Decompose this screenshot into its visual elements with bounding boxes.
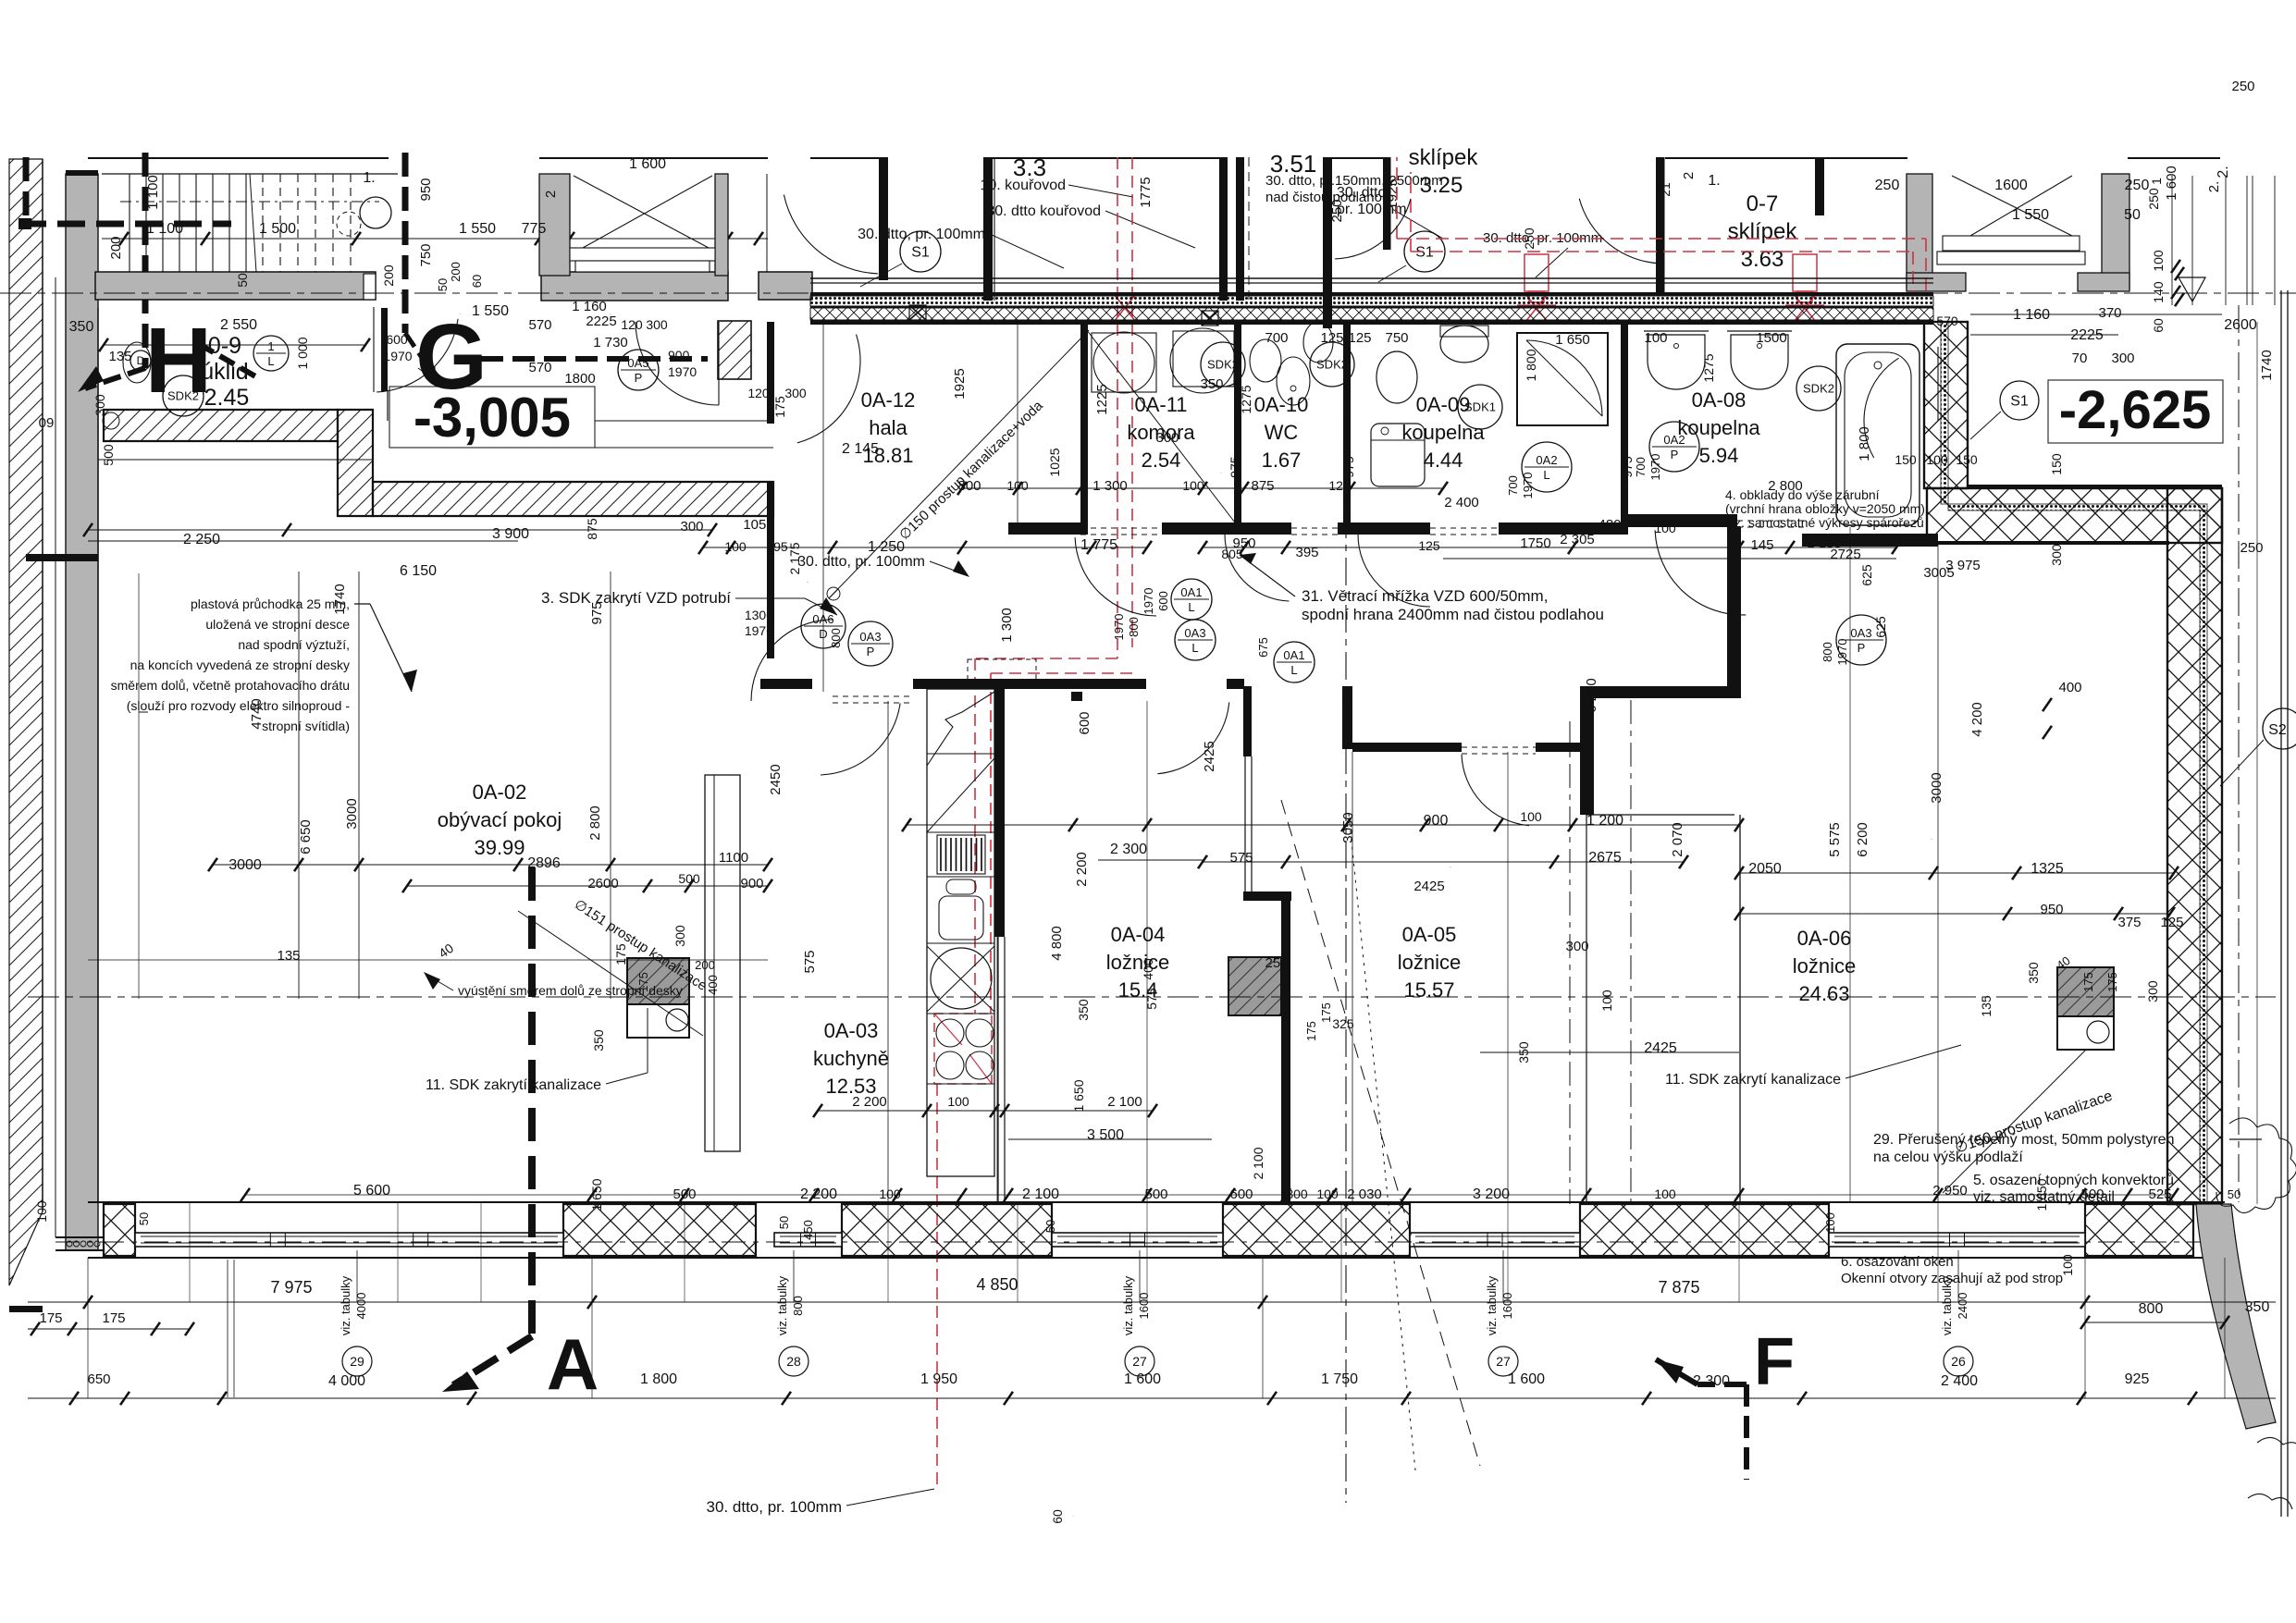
svg-text:1775: 1775: [1138, 177, 1154, 207]
svg-text:525: 525: [2148, 1187, 2171, 1202]
svg-text:2400: 2400: [1956, 1293, 1969, 1320]
svg-text:300: 300: [2049, 544, 2064, 566]
svg-text:350: 350: [69, 319, 94, 335]
svg-text:100: 100: [1654, 521, 1676, 535]
svg-text:6 650: 6 650: [298, 819, 314, 855]
svg-text:100: 100: [2060, 1254, 2075, 1276]
svg-text:750: 750: [418, 243, 434, 266]
svg-text:100: 100: [947, 1094, 969, 1109]
svg-text:1 100: 1 100: [146, 221, 183, 237]
svg-text:P: P: [635, 371, 643, 385]
svg-text:09: 09: [39, 415, 55, 431]
svg-text:150: 150: [1895, 452, 1917, 467]
svg-text:3000: 3000: [344, 798, 360, 829]
svg-text:100: 100: [724, 539, 747, 554]
svg-text:350: 350: [1200, 376, 1223, 392]
svg-text:925: 925: [2125, 1371, 2150, 1387]
svg-text:WC: WC: [1265, 421, 1299, 444]
svg-text:P: P: [1671, 448, 1679, 461]
svg-text:2425: 2425: [1202, 741, 1217, 771]
svg-text:6 250: 6 250: [1584, 678, 1599, 713]
svg-text:100: 100: [879, 1187, 901, 1201]
svg-text:H: H: [145, 309, 212, 412]
svg-text:S1: S1: [1415, 245, 1434, 261]
svg-text:450: 450: [801, 1220, 815, 1240]
svg-text:L: L: [267, 354, 274, 368]
svg-text:1750: 1750: [1520, 535, 1550, 551]
svg-text:1: 1: [2149, 178, 2164, 185]
svg-text:500: 500: [673, 1187, 696, 1202]
svg-text:975: 975: [589, 601, 605, 624]
svg-text:1970: 1970: [668, 364, 697, 379]
svg-text:895: 895: [766, 539, 788, 554]
svg-text:400: 400: [2058, 680, 2081, 695]
svg-text:kuchyně: kuchyně: [813, 1047, 889, 1070]
svg-text:1600: 1600: [1994, 178, 2028, 193]
svg-text:SDK2: SDK2: [1207, 358, 1239, 372]
svg-text:sklípek: sklípek: [1409, 145, 1479, 170]
svg-text:700: 700: [1634, 457, 1648, 477]
svg-text:21: 21: [1658, 182, 1673, 197]
svg-text:2 100: 2 100: [1022, 1187, 1059, 1202]
svg-text:5 575: 5 575: [1827, 822, 1843, 857]
svg-text:575: 575: [1144, 988, 1159, 1010]
svg-text:800: 800: [1127, 617, 1141, 637]
svg-text:2425: 2425: [1413, 879, 1444, 894]
svg-text:15.57: 15.57: [1403, 978, 1454, 1002]
svg-text:375: 375: [2117, 915, 2141, 930]
svg-text:2 175: 2 175: [787, 542, 802, 574]
svg-text:1 160: 1 160: [572, 299, 607, 314]
svg-text:0A-06: 0A-06: [1797, 927, 1852, 950]
svg-text:1 160: 1 160: [2013, 307, 2050, 323]
svg-text:2 200: 2 200: [852, 1094, 887, 1110]
svg-text:viz. tabulky: viz. tabulky: [339, 1275, 352, 1335]
svg-text:50: 50: [777, 1216, 791, 1229]
svg-text:975: 975: [1341, 456, 1356, 478]
svg-text:2 100: 2 100: [1251, 1147, 1265, 1179]
svg-text:2050: 2050: [1748, 861, 1782, 877]
svg-text:5.94: 5.94: [1699, 444, 1739, 467]
svg-text:39.99: 39.99: [474, 836, 525, 859]
svg-text:S1: S1: [2010, 394, 2029, 410]
svg-text:500: 500: [2080, 1187, 2104, 1202]
svg-text:-2,625: -2,625: [2059, 380, 2211, 440]
svg-text:2 305: 2 305: [1450, 867, 1452, 868]
svg-text:300: 300: [646, 317, 668, 332]
svg-text:350: 350: [2026, 962, 2041, 984]
svg-text:1970: 1970: [1835, 639, 1849, 666]
svg-text:viz. tabulky: viz. tabulky: [1485, 1275, 1499, 1335]
svg-text:0-7: 0-7: [1747, 191, 1779, 216]
svg-text:100: 100: [1520, 809, 1542, 824]
svg-text:500: 500: [678, 871, 700, 886]
svg-text:0A-11: 0A-11: [1134, 393, 1187, 416]
svg-text:800: 800: [829, 628, 843, 648]
svg-text:27: 27: [1132, 1354, 1147, 1369]
svg-text:2225: 2225: [586, 314, 616, 329]
svg-text:1600: 1600: [1500, 1293, 1514, 1320]
svg-text:D: D: [819, 627, 827, 641]
svg-text:100: 100: [1644, 330, 1667, 346]
svg-text:31. Větrací mřížka VZD 600/50m: 31. Větrací mřížka VZD 600/50mm,: [1302, 587, 1548, 605]
svg-text:2.: 2.: [2216, 166, 2231, 178]
svg-text:hala: hala: [869, 416, 907, 439]
svg-text:350: 350: [1516, 1041, 1531, 1064]
svg-text:SDK2: SDK2: [1316, 358, 1348, 372]
svg-text:1325: 1325: [2031, 861, 2064, 877]
svg-text:875: 875: [585, 518, 599, 540]
svg-text:50: 50: [137, 1212, 151, 1225]
svg-text:100: 100: [1654, 1187, 1676, 1201]
svg-text:1 750: 1 750: [1321, 1371, 1358, 1387]
svg-text:0A-03: 0A-03: [824, 1019, 879, 1042]
svg-text:P: P: [1858, 641, 1866, 655]
svg-text:100: 100: [34, 1200, 49, 1223]
svg-text:0A6: 0A6: [812, 612, 833, 626]
svg-text:0A-08: 0A-08: [1692, 388, 1747, 412]
svg-text:3 975: 3 975: [1945, 558, 1981, 573]
svg-text:570: 570: [1936, 314, 1958, 328]
svg-text:1 550: 1 550: [472, 303, 509, 319]
svg-text:300: 300: [784, 386, 807, 400]
svg-text:1970: 1970: [1142, 588, 1155, 615]
svg-text:950: 950: [2040, 902, 2063, 917]
svg-text:700: 700: [1506, 475, 1520, 496]
svg-text:2 950: 2 950: [1932, 1183, 1968, 1199]
svg-text:2.54: 2.54: [1142, 449, 1181, 472]
svg-text:625: 625: [1859, 564, 1874, 586]
svg-text:135: 135: [277, 948, 300, 964]
svg-text:175: 175: [2105, 972, 2119, 992]
svg-text:900: 900: [740, 876, 763, 891]
svg-text:směrem dolů, včetně protahovac: směrem dolů, včetně protahovacího drátu: [111, 678, 350, 693]
svg-text:11. SDK zakrytí kanalizace: 11. SDK zakrytí kanalizace: [1665, 1072, 1841, 1088]
svg-text:300: 300: [1286, 1187, 1308, 1201]
svg-text:2600: 2600: [2224, 317, 2257, 333]
svg-text:1 300: 1 300: [1092, 478, 1128, 494]
svg-text:100: 100: [1182, 478, 1204, 493]
svg-text:(slouží pro rozvody elektro si: (slouží pro rozvody elektro silnoproud -: [127, 698, 351, 713]
svg-text:1970: 1970: [383, 349, 412, 363]
svg-text:nad čistou podlahou: nad čistou podlahou: [1265, 190, 1389, 205]
svg-text:viz. tabulky: viz. tabulky: [1940, 1275, 1954, 1335]
svg-text:1.67: 1.67: [1262, 449, 1302, 472]
svg-text:300: 300: [1565, 939, 1588, 954]
svg-text:1 200: 1 200: [1586, 813, 1623, 829]
svg-text:2675: 2675: [1588, 850, 1622, 866]
svg-text:stropní svítidla): stropní svítidla): [262, 719, 350, 733]
svg-text:570: 570: [528, 317, 551, 333]
svg-text:30. dtto, pr.150mm, 2500mm: 30. dtto, pr.150mm, 2500mm: [1265, 173, 1443, 189]
svg-text:30. dtto, pr. 100mm: 30. dtto, pr. 100mm: [797, 554, 925, 570]
svg-text:1 600: 1 600: [1124, 1371, 1161, 1387]
svg-text:ložnice: ložnice: [1793, 954, 1856, 977]
svg-text:3000: 3000: [1929, 772, 1944, 803]
svg-text:1970: 1970: [1648, 454, 1662, 481]
svg-text:350: 350: [1076, 999, 1091, 1021]
svg-text:0A-04: 0A-04: [1111, 923, 1166, 946]
svg-text:6 150: 6 150: [400, 563, 437, 579]
svg-text:600: 600: [1077, 711, 1092, 734]
svg-text:5. osazení topných konvektorů: 5. osazení topných konvektorů: [1973, 1172, 2174, 1188]
svg-text:0A3: 0A3: [1850, 626, 1871, 640]
svg-text:60: 60: [2151, 318, 2166, 333]
svg-text:1800: 1800: [564, 371, 595, 387]
svg-text:1 550: 1 550: [833, 310, 835, 312]
svg-text:1050: 1050: [743, 517, 773, 533]
svg-text:50: 50: [2124, 207, 2141, 223]
svg-text:300: 300: [680, 519, 703, 535]
svg-text:0-9: 0-9: [208, 333, 241, 359]
svg-text:0A-10: 0A-10: [1254, 393, 1309, 416]
svg-text:250: 250: [1265, 955, 1288, 971]
svg-text:300: 300: [2145, 980, 2160, 1002]
svg-text:570: 570: [528, 360, 551, 375]
svg-text:175: 175: [613, 943, 628, 965]
svg-text:575: 575: [802, 950, 818, 973]
svg-text:0A2: 0A2: [1536, 453, 1557, 467]
svg-text:11. SDK zakrytí kanalizace: 11. SDK zakrytí kanalizace: [426, 1077, 601, 1093]
svg-text:1225: 1225: [1094, 384, 1110, 414]
svg-text:2 305: 2 305: [1560, 532, 1595, 547]
svg-text:L: L: [1188, 600, 1194, 614]
svg-text:875: 875: [1251, 478, 1274, 494]
svg-text:300: 300: [1155, 430, 1179, 446]
svg-text:480: 480: [1598, 517, 1621, 533]
svg-text:250: 250: [2231, 79, 2254, 94]
svg-text:F: F: [1754, 1325, 1795, 1399]
svg-text:SDK2: SDK2: [1803, 382, 1834, 396]
svg-text:4740: 4740: [249, 698, 265, 729]
svg-text:600: 600: [386, 332, 408, 347]
svg-text:1 650: 1 650: [1071, 1079, 1086, 1112]
svg-text:1 650: 1 650: [1555, 332, 1590, 348]
svg-text:3 900: 3 900: [492, 526, 529, 542]
svg-text:175: 175: [102, 1310, 125, 1326]
svg-text:29: 29: [350, 1354, 364, 1369]
svg-text:370: 370: [2098, 305, 2121, 321]
svg-text:300: 300: [2111, 350, 2134, 366]
svg-text:70: 70: [2072, 350, 2088, 366]
svg-text:3050: 3050: [1340, 812, 1356, 842]
svg-text:3.63: 3.63: [1741, 247, 1784, 272]
svg-text:250: 250: [2146, 188, 2161, 210]
svg-text:1 650: 1 650: [589, 1178, 604, 1211]
svg-text:ložnice: ložnice: [1106, 951, 1169, 974]
svg-text:S1: S1: [911, 245, 930, 261]
svg-text:2 400: 2 400: [1444, 495, 1479, 510]
svg-text:125: 125: [1418, 538, 1440, 553]
svg-text:3 200: 3 200: [1473, 1187, 1510, 1202]
svg-text:1 600: 1 600: [2164, 166, 2179, 201]
svg-text:24.63: 24.63: [1798, 982, 1849, 1005]
svg-text:1 730: 1 730: [593, 335, 628, 350]
svg-text:1925: 1925: [952, 368, 968, 399]
svg-text:koupelna: koupelna: [1401, 421, 1485, 444]
svg-text:60: 60: [470, 275, 484, 288]
svg-text:60: 60: [1050, 1509, 1065, 1524]
svg-text:100: 100: [2151, 250, 2166, 272]
svg-text:koupelna: koupelna: [1677, 416, 1760, 439]
svg-text:1970: 1970: [745, 623, 773, 638]
svg-text:7 875: 7 875: [1658, 1278, 1699, 1297]
svg-text:800: 800: [791, 1296, 805, 1316]
svg-text:30. dtto, pr. 100mm: 30. dtto, pr. 100mm: [858, 227, 985, 242]
svg-text:4.44: 4.44: [1424, 449, 1463, 472]
svg-text:2: 2: [1681, 172, 1697, 179]
svg-text:200: 200: [695, 958, 715, 972]
svg-text:1.: 1.: [1708, 173, 1720, 189]
svg-text:A: A: [547, 1323, 599, 1405]
svg-text:6 200: 6 200: [1855, 822, 1870, 857]
svg-text:1275: 1275: [1701, 353, 1716, 382]
svg-text:3 500: 3 500: [1087, 1127, 1124, 1143]
svg-text:2 145: 2 145: [842, 441, 879, 457]
svg-text:1 250: 1 250: [868, 539, 905, 555]
svg-text:7 975: 7 975: [270, 1278, 312, 1297]
svg-text:150: 150: [1956, 452, 1978, 467]
svg-text:135: 135: [1979, 995, 1994, 1017]
svg-text:viz. tabulky: viz. tabulky: [775, 1275, 789, 1335]
svg-text:L: L: [1290, 663, 1297, 677]
svg-text:100: 100: [1823, 1212, 1837, 1233]
svg-text:1.: 1.: [363, 170, 375, 186]
svg-text:2 550: 2 550: [220, 317, 257, 333]
svg-text:675: 675: [1256, 637, 1270, 658]
svg-text:125: 125: [1328, 478, 1351, 493]
svg-text:4 850: 4 850: [976, 1275, 1018, 1294]
svg-text:125: 125: [2160, 915, 2183, 930]
svg-text:na celou výšku podlaží: na celou výšku podlaží: [1873, 1150, 2023, 1165]
svg-text:250: 250: [1875, 178, 1900, 193]
svg-text:5 600: 5 600: [353, 1183, 390, 1199]
svg-text:900: 900: [1424, 813, 1449, 829]
svg-text:1 550: 1 550: [459, 221, 496, 237]
svg-text:2: 2: [543, 191, 559, 198]
svg-text:2 300: 2 300: [1110, 842, 1147, 857]
svg-text:1 800: 1 800: [1857, 426, 1872, 461]
svg-text:975: 975: [1228, 456, 1242, 478]
svg-text:28: 28: [786, 1354, 801, 1369]
svg-text:50: 50: [1043, 1220, 1057, 1233]
svg-text:300: 300: [673, 925, 687, 947]
svg-text:4 800: 4 800: [1049, 926, 1065, 961]
svg-text:1275: 1275: [1239, 385, 1253, 413]
svg-text:1 100: 1 100: [145, 175, 161, 210]
svg-text:0A1: 0A1: [1283, 648, 1304, 662]
svg-text:2425: 2425: [1644, 1040, 1677, 1056]
svg-text:100: 100: [1599, 990, 1614, 1012]
svg-text:2 250: 2 250: [183, 532, 220, 547]
svg-text:805: 805: [1221, 547, 1243, 561]
svg-text:30. dtto kouřovod: 30. dtto kouřovod: [986, 203, 1101, 219]
svg-text:4 000: 4 000: [328, 1373, 365, 1389]
svg-text:3. SDK zakrytí VZD potrubí: 3. SDK zakrytí VZD potrubí: [541, 589, 731, 607]
svg-text:2896: 2896: [527, 855, 561, 871]
svg-text:300: 300: [93, 394, 107, 416]
svg-text:2 200: 2 200: [800, 1187, 837, 1202]
svg-text:P: P: [867, 645, 875, 658]
svg-text:1 000: 1 000: [295, 337, 310, 369]
svg-text:0A-02: 0A-02: [473, 781, 527, 804]
svg-text:1100: 1100: [719, 850, 748, 866]
svg-text:uložená ve stropní desce: uložená ve stropní desce: [205, 617, 350, 632]
svg-text:400: 400: [706, 975, 720, 995]
svg-text:1500: 1500: [1756, 330, 1786, 346]
svg-text:sklípek: sklípek: [1728, 219, 1798, 244]
svg-text:L: L: [1543, 468, 1549, 482]
svg-text:2 400: 2 400: [1941, 1373, 1978, 1389]
svg-text:145: 145: [1750, 537, 1773, 553]
svg-text:4000: 4000: [354, 1293, 368, 1320]
svg-text:L: L: [1191, 641, 1198, 655]
svg-text:350: 350: [2245, 1299, 2270, 1315]
svg-text:0A3: 0A3: [1184, 626, 1205, 640]
svg-text:1740: 1740: [332, 584, 348, 614]
svg-text:10. kouřovod: 10. kouřovod: [980, 178, 1066, 193]
svg-text:0A3: 0A3: [859, 630, 881, 644]
svg-text:1 300: 1 300: [999, 608, 1015, 643]
svg-text:30. dtto, pr. 100mm: 30. dtto, pr. 100mm: [707, 1498, 842, 1516]
svg-text:250: 250: [2240, 540, 2263, 556]
svg-text:2.: 2.: [2206, 181, 2222, 193]
svg-text:125: 125: [1320, 330, 1343, 346]
svg-text:200: 200: [381, 264, 396, 287]
svg-text:0A1: 0A1: [1180, 585, 1202, 599]
svg-text:400: 400: [1141, 958, 1155, 980]
svg-text:700: 700: [1265, 330, 1288, 346]
svg-text:125: 125: [1348, 330, 1371, 346]
svg-text:3000: 3000: [228, 857, 262, 873]
svg-text:2 070: 2 070: [1670, 822, 1685, 857]
svg-text:6 220: 6 220: [1931, 839, 1933, 841]
svg-text:1600: 1600: [1137, 1293, 1151, 1320]
svg-text:plastová průchodka 25 mm,: plastová průchodka 25 mm,: [191, 596, 350, 611]
svg-text:625: 625: [1873, 616, 1888, 638]
svg-text:31: 31: [424, 363, 438, 378]
svg-text:750: 750: [1385, 330, 1408, 346]
svg-text:nad spodní výztuží,: nad spodní výztuží,: [238, 637, 350, 652]
svg-text:26: 26: [1951, 1354, 1966, 1369]
svg-text:27: 27: [1496, 1354, 1511, 1369]
svg-text:350: 350: [591, 1029, 606, 1051]
svg-text:2 100: 2 100: [1107, 1094, 1142, 1110]
svg-text:1025: 1025: [1047, 448, 1062, 476]
svg-text:0A-05: 0A-05: [1402, 923, 1457, 946]
svg-text:2 300: 2 300: [1693, 1373, 1730, 1389]
svg-text:2 030: 2 030: [1347, 1187, 1382, 1202]
svg-text:29. Přerušený tepelný most, 50: 29. Přerušený tepelný most, 50mm polysty…: [1873, 1132, 2174, 1148]
svg-text:2 200: 2 200: [1074, 852, 1090, 887]
svg-text:150: 150: [2049, 453, 2064, 475]
svg-text:395: 395: [1295, 545, 1318, 560]
svg-text:175: 175: [1304, 1021, 1318, 1041]
svg-text:140: 140: [2151, 281, 2166, 303]
svg-text:1 950: 1 950: [920, 1371, 957, 1387]
svg-text:575: 575: [1229, 850, 1253, 866]
svg-text:2450: 2450: [768, 764, 784, 794]
svg-text:175: 175: [1319, 1002, 1333, 1023]
svg-text:G: G: [415, 305, 488, 409]
svg-text:na koncích vyvedená ze stropní: na koncích vyvedená ze stropní desky: [130, 658, 350, 672]
svg-text:2600: 2600: [587, 876, 618, 891]
svg-text:viz. tabulky: viz. tabulky: [1121, 1275, 1135, 1335]
svg-text:800: 800: [957, 478, 981, 494]
svg-text:650: 650: [87, 1371, 110, 1387]
svg-text:175: 175: [2081, 972, 2095, 992]
svg-text:800: 800: [1821, 642, 1834, 662]
